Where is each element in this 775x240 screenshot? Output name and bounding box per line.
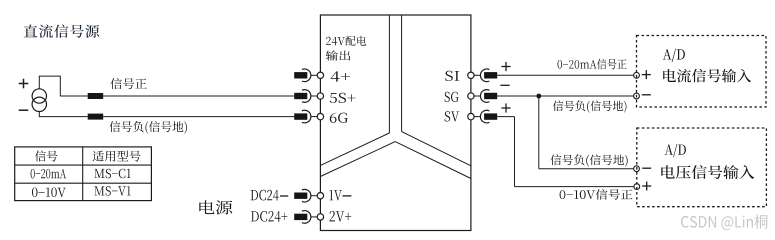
terminal 6G label bbox=[330, 113, 348, 123]
+ mark inside A/D current box bbox=[642, 70, 651, 79]
A/D voltage input dashed box bbox=[637, 128, 767, 207]
junction dot on SG wire bbox=[536, 94, 541, 99]
label 信号负(信号地) (signal negative / signal ground) bbox=[109, 121, 187, 134]
- mark at SG wire bbox=[500, 84, 509, 86]
wire junction down to A/D voltage input - bbox=[539, 96, 634, 169]
terminal SV plug and socket bbox=[468, 110, 498, 123]
- mark inside A/D voltage box bbox=[642, 167, 651, 169]
label 0-20mA信号正 bbox=[558, 59, 627, 70]
terminal 5S+ plug and socket bbox=[294, 90, 323, 103]
fuse bead on signal negative wire bbox=[88, 114, 104, 120]
label 24V配电 (24V distribution) bbox=[326, 36, 366, 46]
isolator module U1 box bbox=[320, 15, 471, 231]
A/D voltage box title A/D bbox=[665, 144, 686, 157]
label 信号正 (signal positive) bbox=[110, 78, 146, 89]
- mark inside A/D current box bbox=[642, 94, 651, 96]
isolation barrier lines inside U1 bbox=[320, 15, 471, 179]
terminal SG label bbox=[445, 92, 459, 102]
terminal 1V- plug and socket bbox=[294, 189, 323, 202]
label 0-10V信号正 bbox=[560, 189, 633, 200]
terminal 6G plug and socket bbox=[294, 110, 323, 123]
label 电源 (power) bbox=[199, 200, 232, 214]
terminal 1V- label bbox=[329, 190, 351, 200]
label 信号负(信号地) upper bbox=[553, 100, 627, 112]
terminal SG plug and socket bbox=[468, 90, 498, 103]
terminal 2V+ label bbox=[330, 211, 352, 222]
label DC24+ (power plus) bbox=[251, 211, 288, 222]
label 输出 (output) bbox=[326, 50, 351, 60]
node circle at A/D current + bbox=[634, 72, 640, 78]
table header 信号 bbox=[35, 150, 57, 161]
source + polarity mark bbox=[19, 79, 29, 89]
+ mark inside A/D voltage box bbox=[642, 182, 651, 191]
terminal SI plug and socket bbox=[468, 69, 498, 82]
node circle at A/D current - bbox=[634, 93, 640, 99]
terminal 4+ label bbox=[331, 71, 350, 81]
label DC24- (power minus) bbox=[251, 190, 289, 201]
model table frame bbox=[15, 147, 152, 201]
terminal SI label bbox=[445, 71, 459, 81]
node circle at A/D voltage + bbox=[634, 184, 640, 190]
terminal 2V+ plug and socket bbox=[294, 211, 323, 224]
A/D current box label 电流信号输入 bbox=[663, 69, 751, 83]
wire: source + terminal to 5S+ (signal positive) bbox=[39, 76, 294, 96]
+ mark at SI wire bbox=[501, 62, 510, 71]
wire: source - terminal to 6G (signal negative) bbox=[39, 112, 294, 117]
A/D voltage box label 电压信号输入 bbox=[661, 165, 754, 179]
DC signal source symbol (two overlapped circles) bbox=[32, 89, 46, 112]
table cell 0-10V bbox=[32, 188, 66, 198]
A/D current box title A/D bbox=[663, 49, 685, 62]
watermark CSDN @Lin桐 bbox=[681, 215, 767, 231]
title 直流信号源 (DC signal source heading) bbox=[24, 25, 100, 38]
terminal 4+ plug and socket bbox=[294, 69, 323, 82]
table cell 0-20mA bbox=[31, 169, 67, 179]
fuse bead on signal positive wire bbox=[88, 93, 104, 99]
+ mark at SV wire bbox=[501, 103, 510, 112]
label 信号负(信号地) lower bbox=[550, 154, 627, 166]
table cell MS-V1 bbox=[95, 186, 131, 196]
terminal 5S+ label bbox=[330, 93, 356, 103]
table cell MS-C1 bbox=[95, 169, 131, 179]
source - polarity mark bbox=[19, 109, 29, 111]
wire SV to A/D voltage input + bbox=[497, 117, 634, 187]
wire SG to A/D current input - bbox=[497, 95, 633, 97]
terminal SV label bbox=[445, 111, 460, 121]
node circle at A/D voltage - bbox=[634, 166, 640, 172]
table header 适用型号 bbox=[93, 151, 141, 162]
wire SI to A/D current input + bbox=[497, 74, 633, 76]
A/D current input dashed box bbox=[637, 36, 767, 108]
